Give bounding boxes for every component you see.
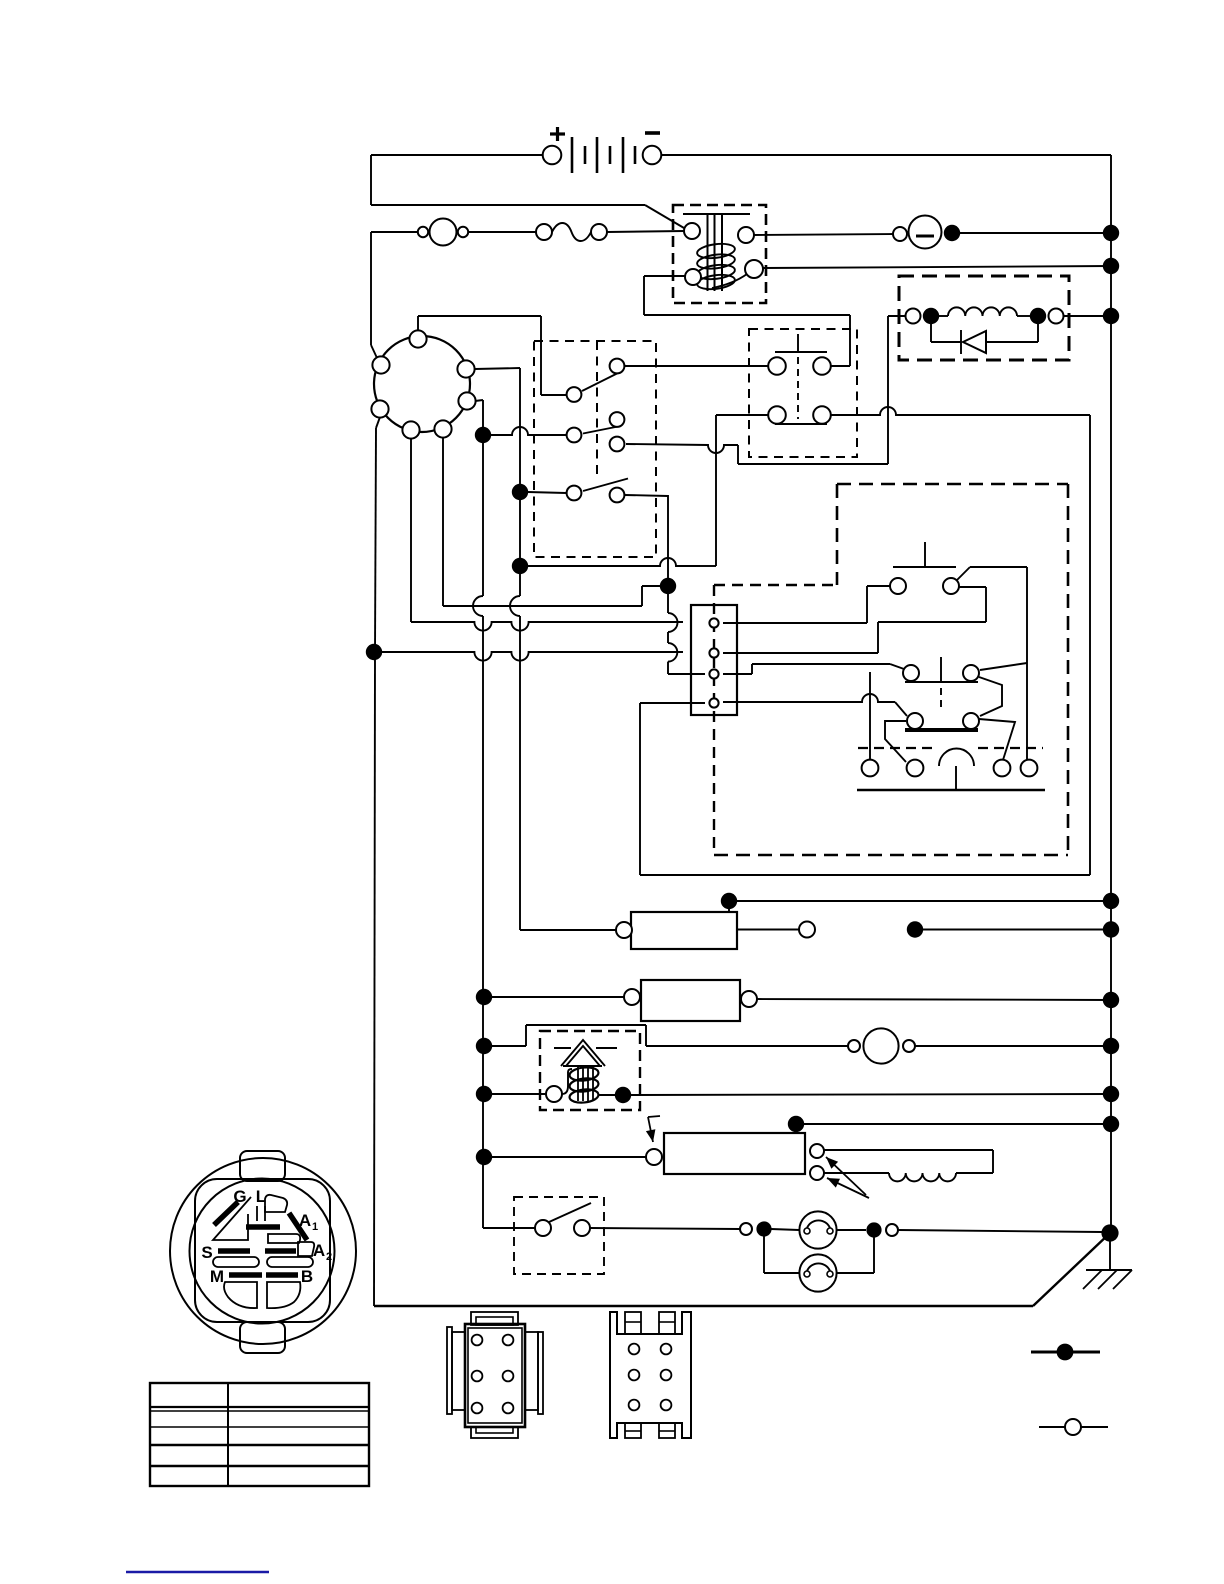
svg-text:M: M	[210, 1267, 224, 1286]
svg-text:1: 1	[312, 1221, 318, 1233]
svg-text:A: A	[299, 1211, 311, 1230]
svg-text:A: A	[313, 1241, 325, 1260]
svg-text:S: S	[201, 1243, 212, 1262]
svg-text:G: G	[233, 1187, 246, 1206]
svg-text:2: 2	[326, 1251, 332, 1263]
svg-text:B: B	[301, 1267, 313, 1286]
svg-text:L: L	[256, 1187, 266, 1206]
